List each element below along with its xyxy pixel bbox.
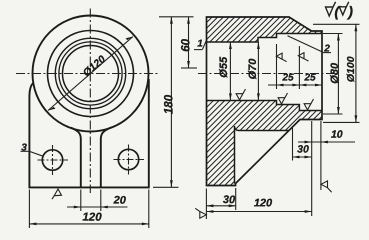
svg-text:1: 1 [197,38,203,49]
svg-text:3: 3 [21,142,27,153]
svg-text:Ø80: Ø80 [329,62,341,84]
svg-text:2: 2 [323,43,330,54]
svg-text:60: 60 [181,38,193,51]
svg-text:25: 25 [303,72,316,83]
svg-text:120: 120 [254,197,273,209]
svg-text:20: 20 [113,195,127,207]
svg-text:25: 25 [281,72,294,83]
svg-text:30: 30 [223,194,236,206]
svg-text:30: 30 [297,143,309,155]
svg-text:Ø100: Ø100 [345,56,357,82]
svg-text:120: 120 [82,212,102,224]
svg-text:180: 180 [163,94,175,114]
svg-text:Ø70: Ø70 [247,58,259,80]
svg-text:10: 10 [331,129,343,141]
svg-text:Ø55: Ø55 [218,56,230,78]
